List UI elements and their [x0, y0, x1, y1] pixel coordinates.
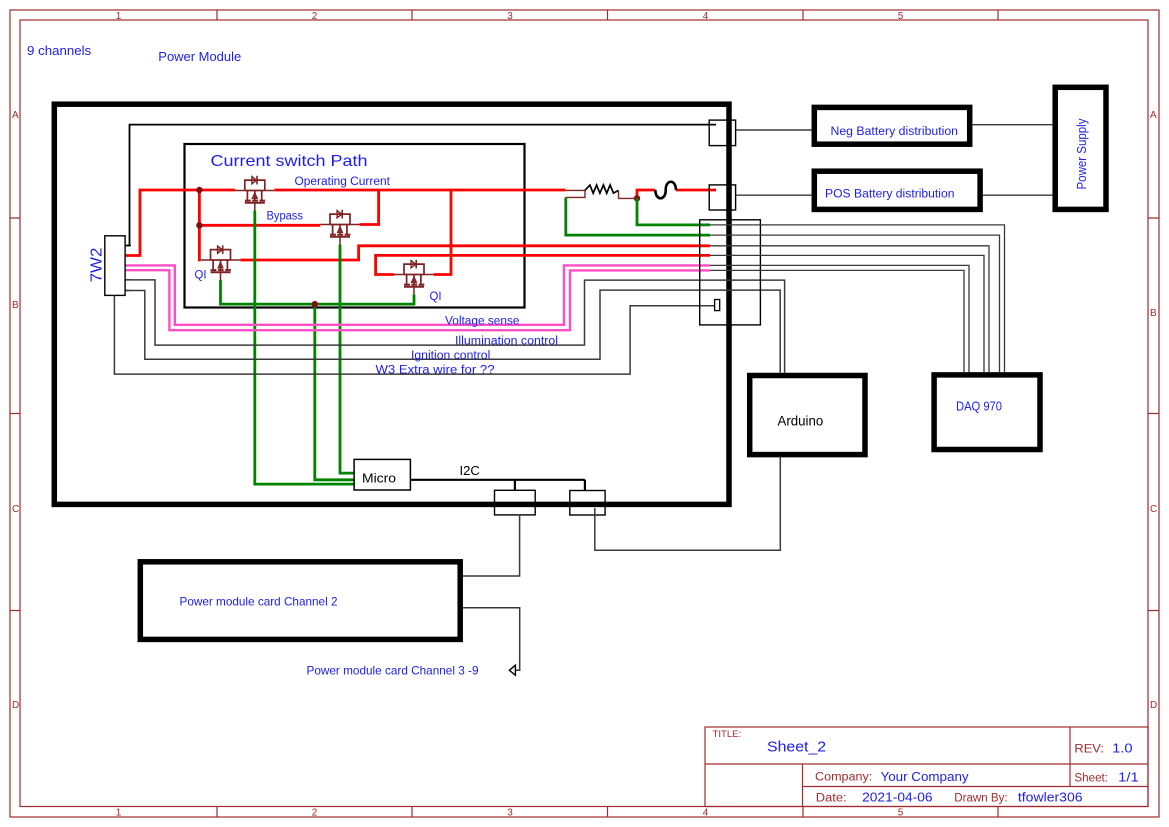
transistor Q4 QI [394, 260, 433, 295]
svg-text:1.0: 1.0 [1112, 742, 1133, 756]
svg-text:Arduino: Arduino [778, 414, 824, 429]
svg-text:2021-04-06: 2021-04-06 [862, 791, 933, 805]
svg-text:Power module card Channel 3 -9: Power module card Channel 3 -9 [307, 664, 479, 678]
svg-text:Current switch Path: Current switch Path [211, 153, 368, 170]
svg-text:I2C: I2C [460, 464, 480, 478]
svg-text:3: 3 [507, 808, 513, 819]
svg-text:Illumination control: Illumination control [455, 336, 558, 348]
connector J4 pos small body [709, 185, 735, 210]
svg-text:W3 Extra wire for ??: W3 Extra wire for ?? [376, 365, 495, 377]
wire I2C bus [410, 480, 585, 491]
fuse F1 [655, 182, 676, 199]
svg-text:Micro: Micro [362, 471, 396, 486]
svg-text:Date:: Date: [816, 793, 847, 805]
connector J6 body [570, 491, 605, 516]
wire gray daq ch4 [710, 255, 984, 372]
svg-text:Bypass: Bypass [267, 211, 304, 223]
current switch path sub-box [185, 144, 525, 308]
svg-text:POS Battery distribution: POS Battery distribution [825, 189, 955, 201]
wire red Q3 output [240, 246, 710, 260]
svg-text:C: C [12, 504, 19, 515]
wire green Q2 drain to micro [340, 245, 354, 474]
wire neg conn to neg box [736, 129, 812, 131]
wire red left rail [140, 190, 201, 260]
svg-text:DAQ 970: DAQ 970 [956, 399, 1002, 414]
svg-text:9 channels: 9 channels [27, 44, 91, 58]
wire gray daq ch3 [710, 246, 989, 372]
svg-text:B: B [12, 300, 19, 311]
wire gray daq ch6 [710, 270, 964, 372]
wire red after resistor to fuse [637, 190, 716, 198]
svg-text:Drawn By:: Drawn By: [954, 793, 1007, 805]
svg-text:5: 5 [898, 11, 904, 22]
wire pink voltage sense 1 [126, 265, 710, 324]
svg-text:4: 4 [703, 808, 709, 819]
svg-text:A: A [1150, 110, 1157, 121]
svg-text:Sheet:: Sheet: [1074, 773, 1108, 785]
wire gray channel card chain [463, 608, 520, 671]
svg-text:Power Supply: Power Supply [1074, 118, 1089, 189]
wire red bypass return vertical [360, 190, 379, 225]
connector 7W2 pin stubs [125, 246, 131, 291]
wire gray J6 to arduino [595, 457, 781, 550]
svg-text:QI: QI [430, 291, 442, 303]
frame row letters left [12, 110, 19, 711]
wire red Q4 return vertical [434, 190, 451, 275]
power module card channel 2 box [140, 562, 460, 640]
svg-text:D: D [12, 700, 19, 711]
arduino box [750, 376, 865, 455]
connector J3 neg small body [709, 120, 735, 146]
svg-text:3: 3 [507, 11, 513, 22]
svg-text:1/1: 1/1 [1118, 771, 1139, 785]
svg-text:4: 4 [703, 11, 709, 22]
wire gray daq ch1 [710, 225, 1005, 372]
wire green Q1 drain to micro [255, 211, 354, 485]
wire gray ignition control [126, 290, 780, 373]
wire green Q3 Q4 drain bus [221, 280, 415, 304]
wire green sense A [566, 197, 710, 235]
wire red bypass branch [199, 224, 320, 227]
svg-text:QI: QI [195, 270, 207, 282]
connector J2 tall body [700, 220, 761, 325]
svg-text:Power Module: Power Module [158, 49, 241, 64]
power module main board outline [54, 104, 729, 504]
svg-text:REV:: REV: [1074, 744, 1104, 756]
transistor Q2 bypass [320, 210, 359, 245]
wire pink voltage sense 2 [126, 270, 710, 330]
wire gray W3 extra [114, 295, 714, 374]
frame column numbers bottom [116, 808, 904, 819]
junction green bus [312, 301, 318, 307]
svg-text:Company:: Company: [815, 772, 872, 784]
svg-text:Power module card Channel 2: Power module card Channel 2 [180, 595, 338, 609]
transistor Q3 QI [201, 245, 240, 280]
resistor R1 pins [566, 190, 637, 198]
svg-text:Sheet_2: Sheet_2 [767, 739, 826, 756]
svg-text:Operating Current: Operating Current [295, 176, 391, 188]
power supply box [1055, 87, 1106, 209]
daq 970 box [934, 375, 1040, 450]
wire neg box to power supply [973, 124, 1053, 126]
svg-text:2: 2 [312, 808, 318, 819]
transistor Q1 operating current [235, 176, 274, 211]
resistor R1 body [585, 185, 618, 193]
svg-text:tfowler306: tfowler306 [1018, 791, 1083, 805]
svg-text:Ignition control: Ignition control [411, 350, 490, 362]
svg-text:B: B [1150, 308, 1157, 319]
title block labels [713, 729, 1109, 805]
wire red operating current rail [274, 189, 565, 192]
svg-text:A: A [12, 110, 19, 121]
junction red rail bypass [196, 222, 202, 228]
svg-text:Voltage sense: Voltage sense [445, 316, 520, 328]
title block values [767, 739, 1139, 805]
wire gray daq ch2 [710, 235, 1000, 372]
svg-text:1: 1 [116, 808, 122, 819]
junction resistor output [634, 195, 640, 201]
connector J5 body [495, 490, 536, 515]
wire pos box to power supply [983, 194, 1053, 196]
pos battery distribution box [814, 171, 980, 209]
svg-text:2: 2 [312, 11, 318, 22]
svg-text:7W2: 7W2 [89, 248, 106, 283]
svg-text:C: C [1150, 504, 1157, 515]
svg-text:1: 1 [116, 11, 122, 22]
wire green sense B [637, 198, 710, 225]
svg-text:5: 5 [898, 808, 904, 819]
wire pos conn to pos box [736, 194, 812, 196]
svg-text:TITLE:: TITLE: [713, 729, 742, 740]
connector 7W2 body [105, 236, 125, 296]
svg-text:Neg Battery distribution: Neg Battery distribution [831, 126, 959, 138]
wire red Q4 input [376, 255, 710, 274]
wire red feed from 7W2 pin2 [126, 190, 235, 256]
title block frame [705, 727, 1148, 807]
wire neg battery black from 7W2 pin1 [126, 125, 716, 246]
micro box [354, 459, 410, 490]
svg-text:D: D [1150, 700, 1157, 711]
wire gray illumination control [126, 280, 785, 373]
frame row letters right [1150, 110, 1157, 711]
wire gray J5 to channel card [463, 515, 520, 576]
wire gray daq ch5 [710, 265, 969, 372]
connector J2 W3 pin [715, 300, 720, 311]
frame column numbers top [116, 11, 904, 22]
neg battery distribution box [814, 107, 969, 144]
junction red rail top [196, 187, 202, 193]
arrow channel 3-9 [509, 665, 515, 675]
wire green junction to micro [315, 304, 354, 480]
svg-text:Your Company: Your Company [881, 770, 970, 784]
